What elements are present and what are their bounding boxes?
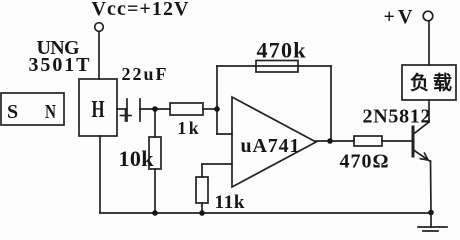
- svg-text:+V: +V: [384, 6, 414, 28]
- svg-text:11k: 11k: [215, 192, 245, 213]
- svg-text:22uF: 22uF: [122, 64, 167, 84]
- svg-text:470k: 470k: [257, 38, 307, 63]
- svg-text:H: H: [92, 97, 105, 122]
- svg-text:载: 载: [433, 71, 452, 94]
- svg-text:1k: 1k: [178, 118, 199, 138]
- svg-text:2N5812: 2N5812: [363, 106, 431, 128]
- svg-text:470Ω: 470Ω: [340, 151, 389, 173]
- svg-text:负: 负: [410, 71, 429, 94]
- svg-text:3501T: 3501T: [29, 54, 91, 76]
- svg-text:N: N: [45, 100, 56, 123]
- svg-text:S: S: [7, 101, 18, 123]
- svg-text:uA741: uA741: [241, 135, 300, 157]
- svg-text:Vcc=+12V: Vcc=+12V: [92, 0, 190, 20]
- svg-text:10k: 10k: [119, 146, 155, 171]
